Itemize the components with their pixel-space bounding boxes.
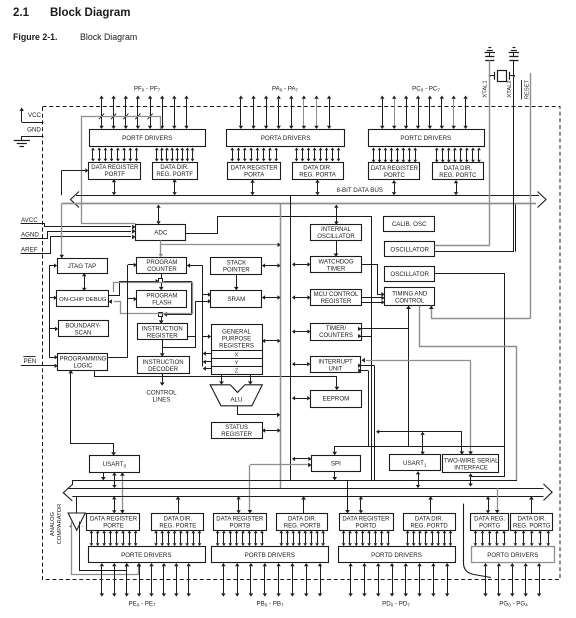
- PORTB drivers box: [212, 547, 329, 563]
- svg-text:REG. PORTG: REG. PORTG: [513, 523, 551, 529]
- wire node around program flash (right loop): [164, 282, 192, 317]
- svg-text:ON-CHIP DEBUG: ON-CHIP DEBUG: [59, 297, 107, 303]
- svg-text:Z: Z: [235, 369, 239, 375]
- svg-text:REG. PORTC: REG. PORTC: [439, 173, 477, 179]
- wire GPR to ALU right input: [248, 374, 253, 385]
- on-chip debug box: [57, 291, 109, 307]
- wire ALU output to data bus: [238, 406, 281, 418]
- svg-text:AGND: AGND: [21, 232, 39, 239]
- general purpose registers box with X Y Z: [211, 325, 262, 375]
- svg-text:PORTE DRIVERS: PORTE DRIVERS: [121, 552, 171, 559]
- svg-text:REG. PORTD: REG. PORTD: [410, 523, 448, 529]
- net label PE0 - PE7: [128, 601, 156, 608]
- SPI box: [312, 456, 361, 472]
- svg-text:REG. PORTB: REG. PORTB: [284, 523, 321, 529]
- wire programming logic to program counter and flash: [108, 263, 137, 358]
- svg-text:JTAG TAP: JTAG TAP: [68, 263, 97, 270]
- VCC pin: [20, 108, 44, 123]
- AVCC pin: [21, 217, 136, 230]
- svg-text:MCU CONTROL: MCU CONTROL: [314, 292, 359, 298]
- data dir reg PORTC box: [433, 163, 484, 180]
- GND pin: [22, 127, 44, 142]
- status register box: [212, 423, 263, 439]
- svg-text:DATA DIR.: DATA DIR.: [164, 516, 193, 522]
- svg-text:Figure 2-1.: Figure 2-1.: [13, 32, 57, 42]
- data register PORTA box: [228, 163, 281, 180]
- AGND pin: [21, 229, 136, 239]
- wire data dir reg PORTC to bus: [454, 180, 458, 195]
- stack pointer box: [211, 258, 262, 275]
- wire into programming logic: [49, 355, 58, 359]
- bundle data register PORTB to PORTB drivers: [216, 531, 264, 547]
- indirect addressing wire (PC/SRAM/GPR): [187, 263, 211, 370]
- XTAL1 wire (gray): [435, 60, 490, 245]
- data register PORTD box: [340, 514, 394, 531]
- svg-text:DATA REG.: DATA REG.: [474, 516, 505, 522]
- wire stack pointer to SRAM: [234, 274, 239, 290]
- svg-text:XTAL2: XTAL2: [507, 80, 513, 97]
- ground symbol: [14, 141, 30, 147]
- svg-text:SPI: SPI: [331, 460, 341, 467]
- oscillator box 2: [385, 267, 435, 282]
- svg-text:PC0 - PC7: PC0 - PC7: [412, 86, 440, 93]
- internal bus vertical (right black): [290, 195, 292, 480]
- svg-text:PROGRAM: PROGRAM: [146, 294, 177, 300]
- svg-text:PORTG: PORTG: [479, 523, 501, 529]
- svg-text:REG. PORTF: REG. PORTF: [156, 172, 193, 178]
- bundle PORTF drivers to data register PORTF: [91, 148, 138, 162]
- svg-text:Block Diagram: Block Diagram: [80, 32, 137, 42]
- net label PC0 - PC7: [412, 86, 440, 93]
- svg-text:PORTD: PORTD: [355, 523, 377, 529]
- instruction register box: [138, 324, 188, 340]
- svg-text:DATA REGISTER: DATA REGISTER: [371, 166, 419, 172]
- USART1 box: [390, 455, 441, 471]
- wire node to instruction register: [159, 316, 164, 324]
- wire data register PORTC to bus: [392, 180, 396, 195]
- wire data dir reg PORTE to bus: [176, 496, 181, 513]
- svg-text:PORTD DRIVERS: PORTD DRIVERS: [371, 552, 422, 559]
- svg-text:PORTB: PORTB: [230, 523, 251, 529]
- bottom 8-bit data bus (double band): [63, 480, 552, 501]
- 8-bit data bus label: [337, 187, 383, 194]
- svg-text:OSCILLATOR: OSCILLATOR: [390, 271, 429, 278]
- calibrated oscillator box: [384, 217, 435, 232]
- internal oscillator box: [311, 225, 362, 241]
- instruction decoder box: [138, 357, 190, 374]
- svg-text:INTERRUPT: INTERRUPT: [318, 360, 353, 366]
- svg-text:EEPROM: EEPROM: [322, 396, 349, 403]
- wire interrupt unit to internal bus: [292, 362, 311, 366]
- svg-text:SRAM: SRAM: [227, 296, 245, 303]
- wire into on-chip debug: [49, 296, 57, 300]
- svg-text:WATCHDOG: WATCHDOG: [319, 260, 354, 266]
- svg-text:DATA DIR.: DATA DIR.: [288, 516, 317, 522]
- svg-text:RESET: RESET: [524, 79, 530, 99]
- bundle data register PORTE to PORTE drivers: [90, 531, 138, 547]
- wire timing and control to timer/counters: [358, 306, 411, 447]
- node square above program flash: [159, 279, 163, 283]
- net label PD0 - PD7: [382, 601, 410, 608]
- svg-text:REGISTER: REGISTER: [321, 299, 352, 305]
- data register PORTC box: [369, 163, 420, 180]
- svg-text:INSTRUCTION: INSTRUCTION: [143, 360, 184, 366]
- svg-text:INTERNAL: INTERNAL: [321, 227, 351, 233]
- USART0 box: [90, 456, 140, 473]
- wire data dir reg PORTF to bus: [172, 179, 176, 195]
- gray wire to SPI and data register PORTB: [248, 463, 312, 514]
- wire data dir reg PORTA to bus: [315, 180, 319, 196]
- program flash box: [137, 291, 187, 308]
- wire data register PORTF to bus: [112, 179, 116, 195]
- XTAL1 label: [483, 80, 489, 97]
- wires into timer/counters and interrupt unit: [358, 334, 374, 368]
- PORTG drivers box: [472, 547, 555, 563]
- svg-text:UNIT: UNIT: [329, 367, 343, 373]
- svg-text:DATA DIR.: DATA DIR.: [444, 166, 473, 172]
- SRAM box: [211, 291, 262, 308]
- svg-text:PD0 - PD7: PD0 - PD7: [382, 601, 410, 608]
- wire bus to internal oscillator: [334, 205, 338, 225]
- wire bus to data register PORTD: [359, 496, 363, 513]
- svg-text:PEN: PEN: [24, 358, 37, 365]
- PORTB pin arrows: [221, 563, 322, 597]
- wire data dir reg PORTG to bus: [529, 496, 534, 513]
- svg-text:COMPARATOR: COMPARATOR: [57, 504, 63, 545]
- data register PORTF box: [89, 163, 141, 180]
- data dir reg PORTD box: [404, 514, 456, 531]
- figure caption: [13, 32, 137, 42]
- svg-text:PORTE: PORTE: [103, 523, 124, 529]
- left feeder wire: [49, 266, 51, 358]
- svg-text:TWO-WIRE SERIAL: TWO-WIRE SERIAL: [444, 459, 499, 465]
- data dir reg PORTE box: [152, 514, 204, 531]
- wire program counter to node: [161, 274, 163, 279]
- svg-text:DECODER: DECODER: [148, 367, 179, 373]
- wire USART0 to bottom bus (left): [101, 472, 106, 480]
- svg-text:STATUS: STATUS: [225, 425, 248, 431]
- svg-text:-: -: [82, 524, 84, 530]
- wire into JTAG TAP: [49, 263, 57, 267]
- svg-text:FLASH: FLASH: [152, 301, 171, 307]
- svg-text:TIMING AND: TIMING AND: [392, 291, 428, 297]
- data dir reg PORTA box: [293, 163, 344, 180]
- XTAL2 label: [507, 80, 513, 97]
- wire status register to internal bus: [262, 428, 281, 432]
- svg-text:PROGRAM: PROGRAM: [146, 260, 177, 266]
- wire programming logic to USART0: [68, 370, 116, 456]
- horizontal wire to USART1/TWI: [376, 430, 462, 434]
- gray wire to data reg PORTG: [495, 488, 500, 513]
- wire oscillator 1 to top bus: [515, 205, 517, 252]
- svg-text:CALIB. OSC: CALIB. OSC: [392, 221, 427, 228]
- svg-text:DATA REGISTER: DATA REGISTER: [231, 166, 279, 172]
- svg-text:PROGRAMMING: PROGRAMMING: [60, 356, 107, 362]
- svg-text:AREF: AREF: [21, 247, 38, 254]
- svg-text:REG. PORTE: REG. PORTE: [159, 523, 196, 529]
- svg-text:ANALOG: ANALOG: [50, 511, 56, 536]
- svg-text:REGISTER: REGISTER: [221, 432, 252, 438]
- gray wire USART0 to data register PORTE: [120, 472, 125, 513]
- bundle data dir reg PORTG to PORTG drivers: [514, 531, 551, 547]
- wire watchdog timer to internal bus: [292, 262, 311, 266]
- bundle data dir reg PORTE to PORTE drivers: [154, 531, 201, 547]
- bundle data register PORTD to PORTD drivers: [342, 531, 390, 547]
- section heading 2.1 Block Diagram: [13, 7, 131, 19]
- svg-text:PORTF: PORTF: [105, 172, 126, 178]
- wire data register PORTA to bus: [250, 180, 254, 196]
- wire MCU control register to internal bus: [292, 295, 311, 299]
- PORTG section separator wire: [464, 504, 492, 578]
- svg-text:COUNTER: COUNTER: [147, 267, 177, 273]
- wire horizontal line into TWI top: [460, 432, 465, 455]
- svg-text:SCAN: SCAN: [75, 330, 92, 336]
- svg-text:ALU: ALU: [230, 397, 242, 404]
- svg-text:XTAL1: XTAL1: [483, 80, 489, 97]
- wire into data register PORTF from left: [62, 168, 89, 195]
- timer/counters box: [311, 324, 362, 341]
- wire MCU control register to timing and control: [361, 296, 384, 305]
- PORTE pin arrows: [100, 563, 191, 597]
- PEN pin: [21, 357, 58, 369]
- data register PORTE box: [87, 514, 140, 531]
- svg-text:PG0 - PG4: PG0 - PG4: [499, 601, 528, 608]
- svg-text:LOGIC: LOGIC: [74, 363, 93, 369]
- svg-text:USART1: USART1: [403, 460, 427, 467]
- analog comparator label: [50, 504, 63, 545]
- svg-text:REGISTER: REGISTER: [147, 333, 178, 339]
- net label PA0 - PA7: [272, 86, 299, 93]
- wire USART0 to bottom bus (mid): [112, 472, 116, 488]
- PORTA pin arrows: [239, 96, 332, 130]
- XTAL2 load capacitor and ground: [509, 48, 519, 61]
- svg-text:CONTROL: CONTROL: [146, 390, 177, 397]
- wire JTAG TAP to on-chip debug: [82, 273, 87, 291]
- timing and control box: [385, 288, 435, 306]
- PORTG pin arrows: [483, 563, 541, 597]
- data reg PORTG box: [471, 514, 509, 531]
- svg-text:PORTB DRIVERS: PORTB DRIVERS: [245, 552, 295, 559]
- vertical wire interrupt unit feed: [358, 368, 368, 446]
- svg-text:COUNTERS: COUNTERS: [319, 333, 353, 339]
- internal bus vertical (gray): [280, 203, 282, 488]
- wire instruction register to SRAM and decoder: [160, 299, 211, 357]
- svg-text:GENERAL: GENERAL: [222, 329, 251, 335]
- crossover ticks on PORTF pin wires: [99, 114, 153, 120]
- PORTD drivers box: [339, 547, 456, 563]
- svg-text:X: X: [235, 352, 239, 358]
- svg-text:OSCILLATOR: OSCILLATOR: [317, 234, 355, 240]
- RESET label: [522, 79, 531, 99]
- analog comparator input wire (gray): [72, 522, 142, 575]
- svg-text:INTERFACE: INTERFACE: [454, 466, 488, 472]
- program counter box: [137, 258, 187, 274]
- oscillator 2 output wire: [435, 274, 505, 477]
- svg-text:POINTER: POINTER: [223, 268, 250, 274]
- svg-text:REG. PORTA: REG. PORTA: [299, 173, 335, 179]
- svg-text:DATA DIR.: DATA DIR.: [160, 165, 189, 171]
- bundle PORTA drivers to data register PORTA: [230, 148, 278, 162]
- wire stack pointer to internal bus: [262, 263, 281, 267]
- svg-text:PORTG DRIVERS: PORTG DRIVERS: [487, 552, 538, 559]
- node square below program flash: [159, 313, 163, 317]
- net label PG0 - PG4: [499, 601, 528, 608]
- vertical stub wire: [374, 366, 376, 481]
- svg-text:DATA REGISTER: DATA REGISTER: [91, 165, 139, 171]
- oscillator box 1: [385, 242, 435, 257]
- wire bus to ADC: [156, 205, 160, 225]
- top 8-bit data bus (double arrow band): [71, 192, 547, 208]
- wire timer/counters to internal bus: [292, 329, 311, 333]
- bundle data reg PORTG to PORTG drivers: [474, 531, 506, 547]
- wire GPR to internal bus: [262, 339, 281, 343]
- wire on-chip debug to node (black loop): [109, 279, 160, 296]
- svg-text:PA0 - PA7: PA0 - PA7: [272, 86, 299, 93]
- svg-text:ADC: ADC: [154, 230, 168, 237]
- XTAL1 load capacitor and ground: [485, 48, 495, 61]
- wire USART1 to horizontal: [420, 432, 424, 455]
- JTAG TAP box: [58, 259, 108, 274]
- svg-text:VCC: VCC: [28, 112, 42, 119]
- control lines label: [146, 390, 177, 404]
- wire bus to data reg PORTG: [486, 496, 490, 513]
- wire SPI top feed: [332, 447, 504, 456]
- svg-text:PF0 - PF7: PF0 - PF7: [134, 86, 161, 93]
- PORTE drivers box: [89, 547, 206, 563]
- data dir reg PORTB box: [277, 514, 328, 531]
- svg-text:PORTA: PORTA: [244, 173, 264, 179]
- chip boundary (dashed): [43, 107, 561, 580]
- boundary-scan box: [59, 321, 109, 337]
- gray wire ADC to program counter and bus: [159, 240, 281, 257]
- gray loop around program flash: [109, 283, 193, 314]
- svg-text:STACK: STACK: [227, 261, 247, 267]
- svg-text:DATA DIR.: DATA DIR.: [303, 166, 332, 172]
- svg-text:PORTC: PORTC: [384, 173, 406, 179]
- bundle PORTA drivers to data dir reg PORTA: [295, 148, 341, 162]
- XTAL2 wire: [435, 60, 514, 251]
- analog comparator triangle: [68, 513, 85, 530]
- svg-text:BOUNDARY-: BOUNDARY-: [65, 323, 100, 329]
- data register PORTB box: [214, 514, 267, 531]
- svg-text:TIMER: TIMER: [327, 267, 346, 273]
- AREF pin: [21, 235, 136, 254]
- svg-text:GND: GND: [27, 127, 41, 134]
- bundle data dir reg PORTB to PORTB drivers: [279, 531, 325, 547]
- ADC box: [136, 225, 186, 241]
- svg-text:PORTA DRIVERS: PORTA DRIVERS: [261, 135, 311, 142]
- svg-text:PORTF DRIVERS: PORTF DRIVERS: [122, 135, 172, 142]
- svg-text:Y: Y: [235, 360, 239, 366]
- svg-text:DATA DIR.: DATA DIR.: [518, 516, 547, 522]
- wire instruction decoder to control lines: [160, 374, 165, 386]
- wire bus to analog comparator: [76, 496, 78, 513]
- svg-text:2.1: 2.1: [13, 7, 30, 19]
- bundle PORTC drivers to data dir reg PORTC: [435, 148, 481, 163]
- PORTD pin arrows: [348, 563, 449, 597]
- PORTF drivers box: [90, 130, 206, 147]
- analog comparator input wire (black): [80, 522, 130, 571]
- PORTC drivers box: [369, 130, 485, 147]
- PORTC pin arrows: [380, 96, 468, 130]
- bundle data dir reg PORTD to PORTD drivers: [406, 531, 453, 547]
- PORTF pin arrows: [99, 96, 188, 130]
- wire EEPROM to internal bus: [292, 396, 311, 400]
- wire into boundary-scan: [49, 327, 58, 331]
- EEPROM box: [311, 391, 362, 408]
- svg-text:REGISTERS: REGISTERS: [219, 344, 254, 350]
- svg-text:USART0: USART0: [103, 461, 127, 468]
- svg-text:OSCILLATOR: OSCILLATOR: [390, 247, 429, 254]
- wire SPI to internal bus: [292, 457, 312, 461]
- wire node to program flash: [159, 283, 164, 290]
- crystal Y1: [489, 71, 515, 82]
- svg-text:PORTC DRIVERS: PORTC DRIVERS: [400, 135, 451, 142]
- svg-text:PB0 - PB7: PB0 - PB7: [256, 601, 284, 608]
- svg-text:PURPOSE: PURPOSE: [222, 336, 251, 342]
- net label PF0 - PF7: [134, 86, 161, 93]
- wire USART1 to bottom bus: [416, 471, 420, 488]
- data dir reg PORTF box: [153, 163, 198, 180]
- wire ADC to timer/interrupt feeder: [186, 217, 372, 481]
- PORTA drivers box: [227, 130, 345, 147]
- svg-text:CONTROL: CONTROL: [395, 298, 425, 304]
- wire data dir reg PORTB to bus: [301, 496, 306, 513]
- svg-text:DATA REGISTER: DATA REGISTER: [90, 516, 138, 522]
- wire bus to data register PORTB: [236, 496, 240, 513]
- gray clock line in top bus: [62, 203, 536, 205]
- wire SPI to bottom bus: [332, 471, 337, 480]
- wire internal oscillator to watchdog timer: [334, 240, 339, 257]
- wire bus to data register PORTD: [345, 480, 350, 513]
- two-wire serial interface box: [443, 455, 500, 473]
- wire GPR to ALU left input: [219, 374, 224, 385]
- ALU block: [210, 385, 262, 406]
- svg-text:AVCC: AVCC: [21, 217, 38, 224]
- MCU control register box: [311, 290, 362, 306]
- svg-text:TIMER/: TIMER/: [326, 326, 347, 332]
- svg-text:DATA REGISTER: DATA REGISTER: [216, 516, 264, 522]
- programming logic box: [58, 354, 108, 371]
- svg-text:DATA REGISTER: DATA REGISTER: [342, 516, 390, 522]
- gray wire TWI to interrupt unit: [362, 358, 473, 455]
- wire bus to data register PORTE: [112, 496, 116, 513]
- watchdog timer box: [311, 257, 362, 273]
- svg-text:PE0 - PE7: PE0 - PE7: [128, 601, 156, 608]
- gray wire bus to JTAG TAP: [60, 203, 65, 258]
- svg-text:DATA DIR.: DATA DIR.: [415, 516, 444, 522]
- wire SRAM to internal bus: [262, 295, 281, 299]
- svg-text:Block Diagram: Block Diagram: [50, 7, 131, 19]
- wire watchdog timer to timing and control: [361, 265, 384, 297]
- wire data dir reg PORTD to bus: [428, 496, 433, 513]
- gray clock wire to PORTF drivers and ADC: [82, 117, 161, 224]
- bundle PORTC drivers to data register PORTC: [372, 148, 418, 163]
- RESET wire (gray): [429, 73, 531, 319]
- data dir reg PORTG box: [511, 514, 553, 531]
- wire TWI to bottom bus: [468, 473, 472, 486]
- svg-text:INSTRUCTION: INSTRUCTION: [142, 326, 183, 332]
- gray clock wire timing-control to bottom bus: [420, 306, 517, 481]
- wire programming logic bottom long horizontal: [95, 370, 340, 390]
- svg-text:8-BIT DATA BUS: 8-BIT DATA BUS: [337, 187, 383, 194]
- bundle PORTF drivers to data dir reg PORTF: [155, 148, 195, 162]
- interrupt unit box: [311, 357, 361, 373]
- svg-text:LINES: LINES: [153, 397, 171, 404]
- net label PB0 - PB7: [256, 601, 284, 608]
